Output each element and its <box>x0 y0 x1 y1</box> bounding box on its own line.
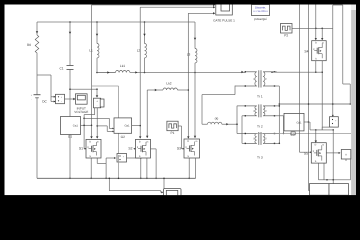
black top bar <box>0 0 360 5</box>
transformer Tr2 <box>255 106 257 116</box>
wire S5 mright to V3 bottom <box>321 127 323 130</box>
wire Tr1 right-bottom down x279 <box>275 85 280 87</box>
svg-text:R0: R0 <box>27 43 31 47</box>
wire x109 to scope feed <box>108 178 110 190</box>
current measurement A1 <box>117 154 127 163</box>
wire S2 bottom-b down <box>146 158 148 178</box>
svg-text:m: m <box>322 42 324 45</box>
wire measurement jog B to G2 <box>96 125 98 127</box>
scope block right bottom a <box>310 184 330 196</box>
node L3 bottom <box>194 72 196 74</box>
inductor L3 <box>194 22 196 49</box>
scope block right bottom b <box>329 184 349 196</box>
wire across to V2 y89.2 <box>70 88 97 90</box>
dc source battery DC <box>34 94 41 96</box>
wire top right corner loop <box>332 5 334 28</box>
wire Tr1 lower path <box>235 85 245 87</box>
transformer Tr1 <box>255 72 257 86</box>
wire x116 gray to bus <box>118 155 120 178</box>
wire x334.5 down <box>332 130 334 191</box>
svg-text:G3: G3 <box>290 132 294 136</box>
voltage measurement V3 <box>330 117 339 127</box>
svg-text:-: - <box>97 104 98 107</box>
wire x164 riser <box>163 178 165 190</box>
wire G1 output <box>81 124 92 126</box>
svg-text:-: - <box>31 98 32 101</box>
voltage measurement V1 <box>56 94 65 103</box>
wire S2 gate stub <box>134 148 136 150</box>
node L2 bottom <box>144 72 146 74</box>
svg-text:Tr 1: Tr 1 <box>257 94 263 98</box>
wire Tr2 Tr3 bottoms <box>241 116 243 144</box>
mosfet S2 <box>136 139 151 158</box>
svg-text:L1: L1 <box>89 49 93 53</box>
wire V1 output to display <box>65 98 74 100</box>
svg-text:DC: DC <box>42 99 47 103</box>
node C1 bottom bus <box>69 178 71 180</box>
svg-text:G1: G1 <box>68 135 72 139</box>
wire x308.5 vertical right <box>308 5 310 191</box>
display INPUT VOLTAGE <box>76 94 88 104</box>
wire feedback 1 from S1 to gate pulse <box>91 5 93 138</box>
wire S2 source down <box>140 158 142 178</box>
wire top bus gray y22 <box>37 21 195 23</box>
wire branch to voltmeter column <box>37 74 51 76</box>
subsystem GATE PULSE 1 <box>216 0 233 15</box>
pulse generator P1 <box>167 121 178 131</box>
node Lk2 end junction <box>188 89 190 91</box>
svg-text:S3: S3 <box>177 147 181 151</box>
wire gray branch y86 <box>92 85 119 87</box>
svg-text:Lk2: Lk2 <box>166 82 171 86</box>
mosfet S1 <box>86 139 101 158</box>
wire S4 source to bus <box>315 61 317 72</box>
wire G3 output to S5 gate path <box>304 121 309 123</box>
svg-text:S1: S1 <box>79 147 83 151</box>
wire Lk2 to S3 column <box>177 89 188 91</box>
wire L3 column to S3 drain <box>194 73 196 139</box>
wire to current measurement A1 <box>106 157 115 159</box>
wire A1 to S2 source-b <box>127 157 141 159</box>
node junction L2 top <box>144 21 146 23</box>
resistor R0 <box>36 22 38 35</box>
wire y180 right bottom <box>319 179 325 181</box>
inductor Lk2 <box>163 88 177 90</box>
wire P2 to S4 gates <box>292 27 333 29</box>
scrollbar <box>352 5 356 196</box>
svg-text:m: m <box>195 140 197 143</box>
black left bar <box>0 0 5 202</box>
svg-text:s = 5e-006 s: s = 5e-006 s <box>253 10 268 13</box>
voltage measurement V2 <box>94 98 101 108</box>
wire V3 top to y104 <box>332 28 334 116</box>
svg-text:C1: C1 <box>59 66 63 70</box>
wire bottom bus y178 <box>37 177 196 179</box>
wire V2 to S1 drain <box>96 108 98 138</box>
svg-text:Ga1: Ga1 <box>124 125 130 128</box>
subsystem G3 <box>284 113 304 130</box>
wire bus y133.5 right <box>255 132 351 134</box>
wire S5 bottom pins down <box>318 163 320 180</box>
capacitor C1 <box>69 22 71 66</box>
subsystem G2 <box>114 118 132 133</box>
pulse generator P2 <box>281 24 293 34</box>
node L1 bottom <box>96 72 98 74</box>
svg-text:GATE PULSE 1: GATE PULSE 1 <box>213 19 235 23</box>
wire bus right y72 <box>272 71 323 73</box>
inductor L1 <box>96 22 98 44</box>
wire long left x299.5 <box>299 5 301 153</box>
svg-text:P1: P1 <box>170 131 174 135</box>
canvas background <box>5 5 352 196</box>
svg-text:m: m <box>146 140 148 143</box>
wire S4 drain column down <box>321 72 323 130</box>
wire S3 source down to bus <box>188 158 190 178</box>
transformer Tr3 <box>255 134 257 144</box>
node junction L1 top <box>96 21 98 23</box>
svg-text:powergui: powergui <box>254 17 267 21</box>
svg-text:Tr 2: Tr 2 <box>257 124 263 128</box>
wire V4 loop <box>350 159 352 180</box>
wire S2 m to bus <box>151 148 157 150</box>
display V4 <box>341 150 351 160</box>
wire feedback 2 from S2 to gate pulse <box>139 7 141 138</box>
wire C1 bottom column <box>69 70 71 179</box>
wire branch down x118.5 <box>118 86 120 155</box>
wire R0 to battery <box>36 56 38 94</box>
wire to S5 gate <box>300 151 312 153</box>
wire Tr2 right terminals <box>275 105 280 107</box>
scope block bottom <box>160 191 162 193</box>
inductor L2 <box>144 22 146 44</box>
mosfet S3 <box>184 139 200 158</box>
svg-text:m: m <box>322 144 324 147</box>
svg-text:Ga1: Ga1 <box>73 125 79 128</box>
wire y130 gate line <box>309 122 311 130</box>
svg-text:S2: S2 <box>128 147 132 151</box>
wire bus y104 right <box>279 103 351 105</box>
wire S1 gate feed <box>83 115 85 149</box>
wire Lk1 bus y72.5 <box>97 72 116 74</box>
svg-text:Lk1: Lk1 <box>120 64 125 68</box>
wire S5 m to scope V4 <box>326 152 340 154</box>
wire bottom right y190.5 <box>309 190 334 192</box>
small series element on y133.5 <box>291 132 295 135</box>
black right bar <box>356 0 360 202</box>
wire Tr3 right terminals <box>275 133 280 135</box>
wire V2 column <box>96 89 98 97</box>
wire Tr1 right to S4 bus <box>275 71 277 73</box>
svg-text:P2: P2 <box>284 33 288 37</box>
wire S1 drain-b down <box>96 158 98 163</box>
small measurement block <box>100 99 104 107</box>
wire k to Tr2 Tr3 tops <box>236 106 238 125</box>
black bottom bar <box>0 195 360 202</box>
inductor Lk1 <box>116 70 130 72</box>
wire S2 drain riser to Lk2 <box>146 90 148 138</box>
node junction C1 top <box>69 21 71 23</box>
wire P1 to S3 gate <box>178 125 181 127</box>
wire Lk1 to Tr1 <box>130 71 245 73</box>
node G1 output junction <box>91 125 93 127</box>
powergui block <box>252 5 270 16</box>
svg-text:VOLTAGE: VOLTAGE <box>74 110 88 114</box>
subsystem G1 <box>61 117 81 135</box>
svg-text:S4: S4 <box>304 50 308 54</box>
svg-text:Tr 3: Tr 3 <box>257 155 263 159</box>
node G2 output junction <box>139 125 141 127</box>
wire L1 to Lk1 node <box>96 58 98 73</box>
wire x283 down <box>283 116 285 134</box>
svg-text:m: m <box>97 140 99 143</box>
wire S1 source down <box>90 158 92 178</box>
svg-text:G2: G2 <box>121 135 125 139</box>
mosfet S4 <box>312 41 327 61</box>
wire feedback 3 from S3 to gate pulse <box>187 13 189 138</box>
wire measurement jog A to G2 <box>83 118 85 120</box>
wire V2 minus jog <box>94 108 96 115</box>
wire G2 output <box>132 125 141 127</box>
svg-text:(k): (k) <box>215 117 219 121</box>
mosfet S5 <box>311 143 326 163</box>
svg-text:Discrete,: Discrete, <box>255 6 266 10</box>
